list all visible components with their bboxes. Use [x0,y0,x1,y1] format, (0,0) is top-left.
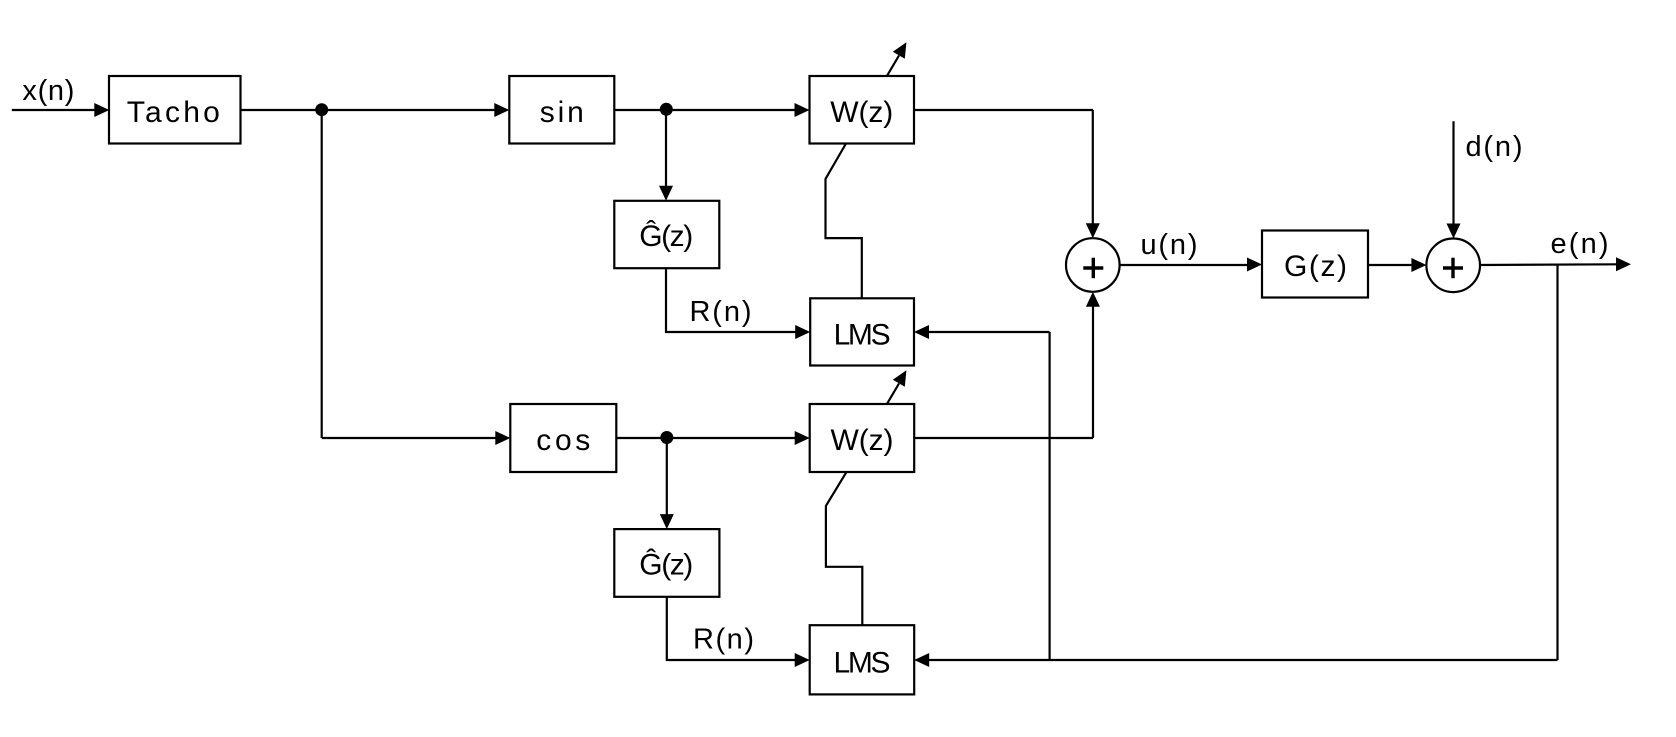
svg-text:R(n): R(n) [690,296,752,328]
adaptive arrow on W(z) lower [887,370,907,404]
summer S2 [1426,238,1480,292]
svg-text:e(n): e(n) [1551,228,1609,260]
block LMS upper [810,298,914,365]
svg-text:Tacho: Tacho [127,96,220,129]
wire W(z) upper output to summer S1 [914,110,1100,238]
block Tacho [109,76,241,144]
block Ghat(z) upper [614,201,719,268]
svg-text:u(n): u(n) [1141,229,1198,261]
svg-text:sin: sin [540,96,584,129]
wire W(z) lower output up into summer S1 bottom [914,292,1100,438]
svg-text:G(z): G(z) [1284,250,1347,283]
svg-text:cos: cos [536,424,590,457]
svg-text:LMS: LMS [834,319,891,352]
wire zigzag W(z) upper to LMS upper [826,144,862,299]
wire summer S1 output u(n) to G(z) [1120,258,1262,272]
svg-text:W(z): W(z) [830,96,893,129]
junction dot B after sin [660,103,673,116]
svg-text:d(n): d(n) [1466,131,1523,163]
svg-text:Ĝ(z): Ĝ(z) [639,548,693,582]
block LMS lower [810,625,915,694]
block W(z) lower [810,404,915,472]
svg-text:x(n): x(n) [22,75,74,107]
svg-text:LMS: LMS [834,647,891,680]
wire error feedback from e(n) node to LMS lower [914,265,1557,667]
wire Ghat(z) upper output R(n) to LMS upper [666,268,810,339]
wire zigzag W(z) lower to LMS lower [826,472,862,625]
block sin [509,76,614,144]
wire error feed into LMS upper right side [914,325,1050,660]
wire sin output to W(z) upper [614,103,809,117]
adaptive arrow on W(z) upper [887,42,907,76]
svg-text:R(n): R(n) [693,624,754,656]
block Ghat(z) lower [614,529,719,597]
wire cos output to W(z) lower [616,431,809,445]
junction dot A after Tacho [315,103,328,116]
wire d(n) input into summer S2 [1447,121,1461,238]
summer S1 [1066,238,1120,292]
block G(z) [1262,231,1368,298]
block W(z) upper [810,76,915,144]
svg-text:W(z): W(z) [831,424,894,457]
wire x(n) input into Tacho [12,103,110,117]
wire branch down from dot B to Ghat(z) upper [659,110,673,201]
wire branch down from dot A to cos [322,110,511,445]
wire Tacho output to sin [241,103,510,117]
wire G(z) output to summer S2 [1368,258,1426,272]
wire Ghat(z) lower output R(n) to LMS lower [667,597,810,667]
svg-text:Ĝ(z): Ĝ(z) [639,219,693,253]
junction dot C after cos [660,431,673,444]
wire branch down from dot C to Ghat(z) lower [660,438,674,529]
wire summer S2 output e(n) [1480,257,1631,271]
block cos [510,404,616,472]
